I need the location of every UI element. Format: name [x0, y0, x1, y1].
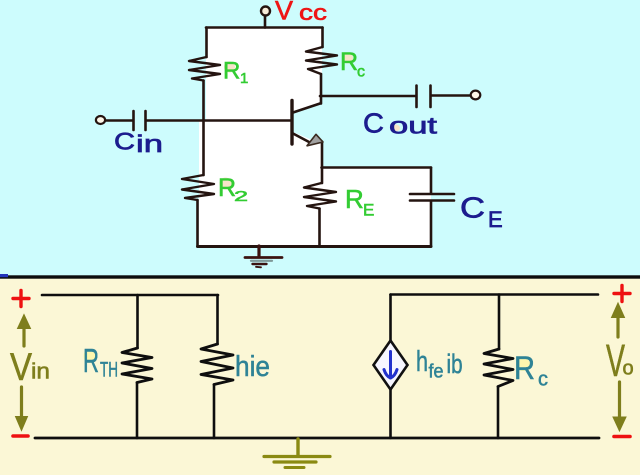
ground (bottom circuit) [264, 439, 330, 468]
wire Vcc stem [264, 16, 267, 28]
wire emitter node to CE [322, 166, 432, 169]
terminal output circle [471, 91, 481, 100]
plus sign Vin [13, 291, 29, 307]
separator navy tick [0, 274, 8, 277]
wire Cout to output [431, 94, 470, 97]
wire bottom rail [35, 437, 599, 440]
plus sign Vo [614, 286, 630, 302]
label CE [460, 193, 503, 233]
svg-text:hie: hie [235, 351, 270, 383]
svg-text:C: C [363, 108, 384, 139]
label Cout [363, 108, 438, 139]
svg-text:fe: fe [429, 362, 444, 383]
capacitor CE plates [410, 194, 454, 201]
wire collector node to Cout [320, 95, 416, 98]
arrow Vin up [18, 315, 31, 347]
wire CE bottom lead [430, 202, 433, 247]
svg-text:R: R [345, 184, 364, 214]
resistor RTH [122, 348, 152, 383]
label hfeib [416, 346, 463, 383]
white interior lower-left loop [199, 120, 322, 246]
resistor R1 [189, 57, 220, 81]
transistor Q1 emitter arrowhead [307, 134, 323, 146]
capacitor Cin plates [134, 111, 146, 130]
wire Rc top lead [498, 295, 501, 350]
terminal Vcc circle [261, 7, 270, 16]
wire RTH top lead [136, 295, 139, 348]
arrow Vo down [613, 382, 626, 431]
wire hie bottom lead [213, 385, 216, 439]
svg-text:E: E [363, 201, 374, 220]
highlight R2 bowl [220, 178, 232, 190]
wire current source top lead [389, 295, 392, 342]
minus sign Vo [614, 435, 630, 439]
wire top rail [206, 26, 323, 29]
arrow Vin down [16, 387, 28, 431]
ground (top circuit) [245, 246, 282, 267]
svg-text:o: o [623, 358, 634, 380]
arrow Vo up [612, 303, 625, 337]
white interior upper loop [206, 28, 322, 120]
wire top right [391, 293, 599, 296]
wire top left [42, 294, 218, 297]
svg-text:c: c [357, 64, 365, 81]
label Cin [114, 129, 163, 159]
svg-text:out: out [389, 113, 438, 139]
wire Rc bottom lead [497, 387, 500, 439]
svg-text:h: h [416, 346, 428, 378]
capacitor Cout plates [417, 86, 431, 108]
wire left rail upper (R1 top lead) [205, 28, 208, 58]
svg-text:R: R [340, 48, 358, 76]
label R2 [218, 174, 248, 205]
svg-text:C: C [460, 193, 485, 225]
separator line [0, 275, 640, 278]
wire RC top lead [321, 28, 324, 48]
label RC [340, 48, 365, 81]
label RE [345, 184, 374, 220]
resistor RC [306, 47, 337, 74]
wire current source bottom lead [389, 390, 392, 439]
transistor Q1 collector diagonal [293, 104, 320, 113]
minus sign Vin [13, 434, 28, 438]
label RTH [83, 342, 118, 382]
svg-text:1: 1 [240, 70, 248, 87]
top background (cyan) [0, 0, 640, 277]
label Vcc [275, 0, 327, 26]
svg-text:cc: cc [299, 0, 327, 25]
bottom background (pale yellow) [0, 277, 640, 475]
wire CE top lead [430, 168, 433, 194]
terminal input circle [96, 116, 105, 124]
resistor RE [304, 183, 336, 209]
white interior RE/CE loop [322, 167, 431, 246]
wire R2 bottom lead [196, 200, 199, 246]
svg-text:V: V [10, 346, 32, 389]
svg-text:R: R [514, 350, 535, 386]
svg-text:E: E [488, 207, 503, 232]
svg-text:R: R [223, 58, 240, 85]
wire base [147, 119, 292, 122]
wire emitter vertical [321, 142, 324, 184]
svg-text:c: c [538, 369, 548, 391]
transistor Q1 emitter diagonal [293, 134, 309, 143]
svg-text:in: in [136, 131, 163, 158]
wire input to Cin [105, 119, 133, 122]
svg-text:2: 2 [234, 188, 248, 205]
resistor hie [201, 344, 233, 385]
wire hie top lead [216, 295, 219, 344]
highlight RC bowl [342, 53, 353, 64]
current source U1 diamond [374, 341, 408, 390]
label R1 [223, 58, 248, 88]
svg-text:in: in [31, 359, 50, 384]
wire RTH bottom lead [136, 383, 139, 439]
label Vo [606, 335, 634, 386]
highlight R1 bowl [224, 62, 235, 73]
highlight Rc bowl [516, 358, 530, 371]
wire collector vertical [320, 74, 323, 104]
resistor Rc [484, 349, 513, 387]
transistor Q1 base bar [290, 101, 293, 145]
resistor R2 [182, 175, 214, 200]
svg-text:C: C [114, 129, 135, 156]
svg-text:R: R [83, 342, 99, 379]
wire RE bottom lead [318, 209, 321, 247]
current source U1 arrow [384, 352, 397, 379]
svg-text:V: V [275, 0, 293, 26]
svg-text:TH: TH [100, 359, 118, 382]
label Rc (bottom) [514, 350, 548, 391]
svg-text:ib: ib [447, 349, 463, 379]
wire ground rail bottom [198, 245, 432, 248]
highlight Cout o [391, 125, 400, 132]
label Vin [10, 346, 50, 389]
wire left rail mid [202, 81, 205, 176]
highlight RTH bowl [84, 349, 97, 363]
